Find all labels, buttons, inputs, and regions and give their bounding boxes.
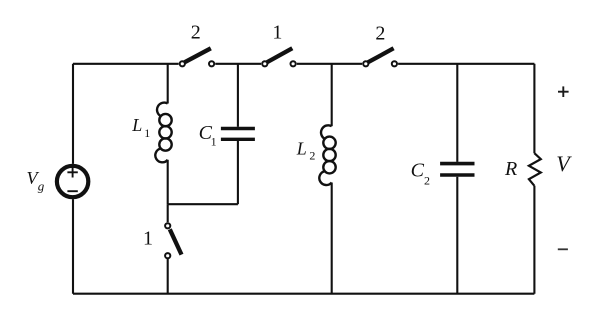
- wire: C2 bottom to bottom rail: [456, 177, 458, 294]
- switch 2 (top rail, left): [180, 48, 215, 66]
- resistor R (zigzag): [529, 153, 541, 186]
- svg-text:R: R: [504, 158, 517, 180]
- capacitor C2: [440, 164, 474, 175]
- wire: switch 1 to bottom rail: [167, 259, 169, 294]
- svg-text:1: 1: [211, 135, 217, 149]
- wire: right branch upper (top rail to R): [533, 64, 535, 153]
- wire: C2 branch from top rail: [456, 64, 458, 162]
- voltage source minus sign: [67, 190, 77, 192]
- label + (output polarity): [558, 86, 569, 97]
- svg-text:1: 1: [144, 126, 150, 140]
- wire: L1 branch from top rail to inductor: [167, 64, 169, 104]
- svg-text:g: g: [38, 178, 45, 193]
- label - (output polarity): [558, 248, 568, 250]
- svg-text:1: 1: [272, 22, 282, 44]
- switch 1 (vertical, in L1 leg): [165, 223, 181, 258]
- wire: left branch lower (Vg to bottom rail): [72, 199, 74, 294]
- switch 1 (top rail, middle): [262, 48, 296, 66]
- switch 2 (top rail, right): [363, 48, 397, 66]
- wire: right branch lower (R to bottom rail): [533, 186, 535, 294]
- wire: L2 branch from top rail: [331, 64, 333, 126]
- wire: L1 bottom to node A: [167, 160, 169, 204]
- svg-text:2: 2: [424, 173, 430, 187]
- wire: bottom rail: [73, 293, 534, 295]
- wire: L2 bottom to bottom rail: [331, 183, 333, 294]
- inductor L1: [155, 103, 171, 163]
- svg-text:L: L: [296, 139, 307, 159]
- svg-text:2: 2: [191, 22, 201, 44]
- wire: C1 branch from top rail: [237, 64, 239, 127]
- inductor L2: [319, 125, 335, 185]
- wire: left branch upper (Vg to top rail): [72, 64, 74, 164]
- wire: node A down to switch 1 (vertical): [167, 204, 169, 222]
- voltage source plus sign: [67, 167, 77, 177]
- wire: top rail segment C (switch 1 to switch 2b): [297, 63, 362, 65]
- svg-text:C: C: [411, 160, 425, 182]
- wire: top rail segment B (switch 2a to switch 1): [215, 63, 261, 65]
- svg-text:2: 2: [309, 149, 315, 163]
- wire: top rail segment D (switch 2b to right corner): [398, 63, 534, 65]
- svg-text:2: 2: [375, 23, 385, 45]
- svg-text:L: L: [131, 115, 142, 135]
- wire: top rail segment A (left corner to switch 2a): [73, 63, 179, 65]
- voltage source Vg: [57, 166, 88, 197]
- svg-text:V: V: [556, 151, 572, 176]
- wire: node A horizontal link (L1/C1 bottom tie): [168, 203, 238, 205]
- svg-text:1: 1: [143, 228, 153, 250]
- capacitor C1: [221, 129, 255, 140]
- wire: C1 bottom to node A link: [237, 141, 239, 204]
